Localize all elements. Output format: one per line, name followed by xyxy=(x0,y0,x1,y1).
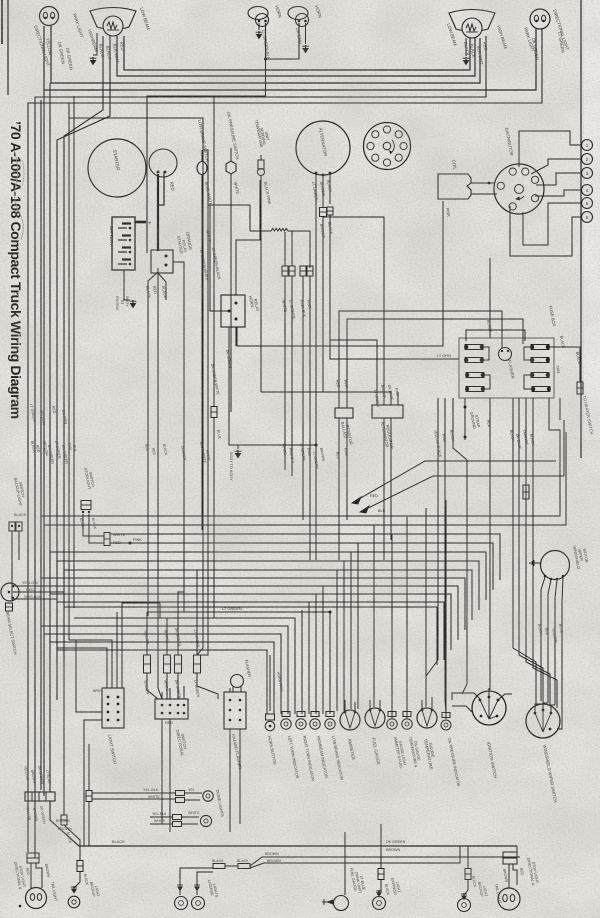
wire black arrow row xyxy=(360,476,564,512)
coil xyxy=(438,174,471,199)
wire fuse out 549 xyxy=(549,398,560,461)
temperature gauge xyxy=(417,708,437,728)
wire mesh row 525 xyxy=(44,432,566,525)
ground body to body xyxy=(237,445,239,449)
ground wiper motor xyxy=(534,562,540,564)
wires fuse box top xyxy=(466,330,525,341)
wires hazard xyxy=(229,688,231,692)
wire bundle x69 xyxy=(68,103,70,640)
fuse 4 xyxy=(466,387,484,392)
alternator connector xyxy=(320,208,327,217)
tail light left connector xyxy=(27,853,39,858)
stoplight connector white red xyxy=(104,533,110,546)
temperature sending unit xyxy=(258,160,264,169)
connector row mid xyxy=(282,266,288,276)
battery xyxy=(112,217,135,270)
ammeter fuel gauge light xyxy=(388,712,396,717)
windshield wiper motor xyxy=(541,551,570,580)
wire fuse out 513 xyxy=(513,398,536,706)
wire lt grn to fuse xyxy=(330,215,459,359)
low brake switch xyxy=(197,162,207,175)
wire bus red headlamps xyxy=(124,36,470,70)
horn button xyxy=(266,714,275,720)
wire tan fuse xyxy=(524,375,532,389)
wire mesh row 578 xyxy=(41,578,465,630)
wire white mid xyxy=(200,150,208,655)
wire mesh row white long xyxy=(110,534,500,580)
wire headlamp jog 1 xyxy=(57,36,110,700)
ground strap xyxy=(464,398,466,440)
wires light switch left xyxy=(76,640,102,712)
wire mesh row 650 xyxy=(57,650,267,714)
starter solenoid xyxy=(149,149,177,177)
wire mesh row 602 xyxy=(57,602,444,660)
wire wiper motor leads xyxy=(541,577,545,701)
wire mesh row 570 xyxy=(64,570,472,620)
tail light left xyxy=(26,888,47,909)
wire fuse out 533 xyxy=(533,398,557,708)
alternator xyxy=(296,121,350,175)
low brake indicator xyxy=(326,712,334,717)
fuel gauge xyxy=(365,708,385,728)
wire ignition feed to fuse box xyxy=(489,258,491,338)
wires connector row xyxy=(146,612,148,655)
wire fuse out 526 xyxy=(526,398,550,705)
oil pressure switch xyxy=(226,161,236,174)
wires below connector row xyxy=(284,276,286,470)
wires wiper switch xyxy=(535,704,541,712)
spark plug wires xyxy=(519,131,581,167)
directional switch xyxy=(155,699,188,719)
wire mesh row 594 xyxy=(50,594,451,650)
wire bundle yellow x44 xyxy=(43,90,45,796)
starter motor xyxy=(88,139,146,197)
dome light connector left xyxy=(86,791,92,802)
highbeam indicator xyxy=(311,712,319,717)
wire mesh row lt green 612 xyxy=(147,612,330,714)
wire dk green-white connector mid xyxy=(211,407,217,418)
wire indicator drops xyxy=(301,610,303,714)
fuse 3 xyxy=(466,373,484,378)
wire bundle line x41 xyxy=(40,100,42,790)
resistor fusible link xyxy=(250,230,271,232)
ballast resistor xyxy=(335,408,353,418)
fuse 1 xyxy=(465,345,483,350)
wire mesh row 626 xyxy=(41,626,288,714)
wires ignition bracket xyxy=(452,693,480,700)
tail light right xyxy=(516,846,518,852)
windshield wiper switch xyxy=(526,704,560,738)
wire headlamp jog 2 xyxy=(64,36,103,666)
headlamp left xyxy=(90,8,136,30)
wire fuse out 438 xyxy=(426,398,438,697)
battery positive terminal xyxy=(135,221,146,224)
wire park right to tail bundle B xyxy=(28,29,542,852)
wire mesh row 618 xyxy=(74,618,295,714)
ammeter xyxy=(340,710,360,730)
left turn indicator xyxy=(282,712,290,717)
backup light right xyxy=(467,846,469,868)
wire bundle x74 xyxy=(73,96,75,608)
wire mesh row 561 xyxy=(57,561,479,610)
headlamp right xyxy=(449,10,495,32)
wire mesh row 642 xyxy=(50,642,274,714)
horn 1 xyxy=(248,7,268,20)
wire mesh row 586 xyxy=(44,586,458,640)
fuse 7 xyxy=(531,373,549,378)
wires horn relay xyxy=(210,205,229,311)
wire bus dk green xyxy=(51,26,480,83)
oil pressure indicator xyxy=(442,713,450,718)
horn relay xyxy=(221,295,245,327)
wire fuse out 560 xyxy=(559,398,561,420)
horn 2 xyxy=(288,7,308,20)
connector row bottom left xyxy=(25,792,55,801)
ground horn 1 xyxy=(258,23,260,30)
distributor xyxy=(494,164,544,214)
ground engine to body xyxy=(124,270,130,300)
wire to heater switch xyxy=(549,347,580,382)
pencil scribble 1970 xyxy=(14,150,23,240)
ground horn 2 xyxy=(305,23,307,44)
ground headlamp left xyxy=(92,57,94,61)
fuse 8 xyxy=(532,387,550,392)
wire bus black headlamps xyxy=(117,36,475,76)
wire fuse out 519 xyxy=(519,398,543,703)
wire fuse links left column xyxy=(483,347,489,360)
fuse box outline xyxy=(459,338,554,398)
spark plugs 1-6 xyxy=(582,140,593,151)
wire coil to distributor xyxy=(471,182,494,184)
wire bundle dk green x50 xyxy=(49,83,51,792)
starter relay xyxy=(151,250,173,273)
ignition switch xyxy=(472,691,506,725)
wire gauge feeds xyxy=(373,525,375,707)
ground headlamp right xyxy=(465,38,467,56)
wire mesh row 517 xyxy=(41,442,560,516)
connector row 655 xyxy=(144,655,151,673)
fuse 2 xyxy=(465,358,483,363)
dome light 1 xyxy=(203,791,213,801)
flasher xyxy=(499,348,512,361)
wire orange from relay xyxy=(173,262,184,612)
battery cable to relay xyxy=(157,216,159,251)
wire starter relay fanout xyxy=(148,268,158,616)
wire fuse out 490 xyxy=(489,398,491,690)
scan border right xyxy=(580,0,582,458)
temperature oil gauge light xyxy=(403,712,411,717)
fuel gauge tank unit xyxy=(344,832,346,895)
right turn indicator xyxy=(297,712,305,717)
wire fuse out 453 xyxy=(453,398,467,694)
backup light left xyxy=(77,861,83,872)
wire coil pink xyxy=(237,201,443,346)
wires directional switch xyxy=(161,692,163,699)
wire red arrow row xyxy=(352,461,556,503)
wires light switch top xyxy=(57,648,107,688)
hazard flasher xyxy=(224,692,246,729)
wire horn feed xyxy=(147,59,266,253)
wire fuse out 445 xyxy=(445,398,446,714)
dome light 2 xyxy=(200,815,211,826)
scan border left xyxy=(7,0,9,95)
wire lt green-white long xyxy=(69,118,203,655)
light switch xyxy=(102,688,124,728)
directional/park light right xyxy=(530,9,550,29)
fuse 6 xyxy=(531,358,549,363)
wire park right to tail bundle A xyxy=(35,36,486,858)
beam select switch xyxy=(1,583,19,601)
wire mesh row 552 xyxy=(50,552,486,600)
fuse 5 xyxy=(531,345,549,350)
backup feed connector xyxy=(63,666,65,815)
wire mesh row 607 xyxy=(64,607,437,665)
stoplight switch xyxy=(81,501,91,510)
wire bus yellow to park right xyxy=(44,26,536,90)
alternator wires xyxy=(315,174,317,560)
wire mesh row 634 xyxy=(44,634,281,714)
express light xyxy=(380,824,382,868)
wire mesh row red long xyxy=(110,543,493,590)
license lights xyxy=(180,868,213,895)
directional/park light left xyxy=(40,7,59,26)
battery cable thick xyxy=(157,174,159,216)
dome light wiring xyxy=(92,792,176,794)
distributor cap top view xyxy=(364,123,411,170)
backup light switch xyxy=(9,522,15,531)
flasher unit above hazard xyxy=(231,675,244,688)
alternator regulator xyxy=(372,405,403,418)
connector mid wire 524 xyxy=(523,485,529,499)
wire horn junction xyxy=(266,23,300,59)
